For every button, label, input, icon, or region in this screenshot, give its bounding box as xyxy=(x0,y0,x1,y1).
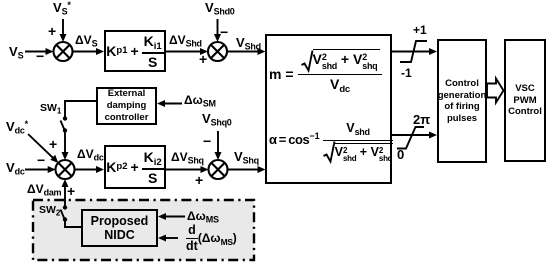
wire m output to control block xyxy=(392,51,430,53)
wire dwMS arrow into NIDC xyxy=(165,216,185,218)
label Vshd0 xyxy=(205,1,234,14)
label -1 xyxy=(401,67,412,79)
label plus S2 xyxy=(199,52,207,66)
label Vs xyxy=(9,45,23,58)
label Vs* xyxy=(53,1,71,14)
label plus S4 xyxy=(195,173,203,187)
label minus S4 xyxy=(203,134,211,148)
wire S2 to m-alpha block xyxy=(227,51,259,53)
wire S1 to PI1 xyxy=(73,51,98,53)
proposed NIDC block xyxy=(81,209,158,247)
label plus S1 xyxy=(48,24,56,38)
wire Vs* down arrow xyxy=(62,19,64,36)
label dwMS xyxy=(187,210,219,222)
wire dVdam up arrow xyxy=(64,185,66,208)
formula m equation xyxy=(269,49,382,91)
label minus S1 xyxy=(36,49,44,63)
label SW1 xyxy=(40,103,61,114)
label Vshq xyxy=(234,150,259,163)
label plus dVdam xyxy=(67,184,75,198)
switch SW1 xyxy=(63,116,67,132)
wire Vshd0 down arrow xyxy=(217,19,219,36)
formula alpha equation xyxy=(269,122,393,163)
wire Vdc input arrow xyxy=(25,169,49,171)
label dVdc xyxy=(77,148,104,160)
label minus S2 xyxy=(220,25,228,39)
wire Vdc* diagonal arrow xyxy=(28,134,54,159)
switch SW2 xyxy=(63,205,67,221)
wire S3 to PI2 xyxy=(75,169,98,171)
wire external controller to SW1 xyxy=(65,101,96,117)
label dVshq xyxy=(171,151,204,163)
label +1 xyxy=(413,24,427,36)
summing junction S3 xyxy=(56,160,75,179)
external damping controller block xyxy=(96,87,157,125)
wire SW2 to NIDC block xyxy=(65,220,81,228)
PI block K_p1 xyxy=(104,30,166,72)
label Vshd xyxy=(236,36,261,49)
label dVs xyxy=(75,34,97,46)
wire alpha output to control block xyxy=(392,134,430,136)
label 2pi xyxy=(413,113,430,126)
wire Vs input arrow xyxy=(25,51,47,53)
summing junction S4 xyxy=(209,160,228,179)
wire PI2 to S4 xyxy=(166,169,202,171)
NIDC dash-dot region box xyxy=(33,200,254,260)
wire PI1 to S2 xyxy=(166,51,201,53)
label dVshd xyxy=(169,34,202,46)
wire dwSM arrow into external controller xyxy=(164,103,182,105)
summing junction S2 xyxy=(208,42,227,61)
wire S4 to m-alpha block xyxy=(228,169,259,171)
summing junction S1 xyxy=(54,42,73,61)
limiter L2 saturation glyph xyxy=(397,127,424,149)
label ddt dwMS xyxy=(186,224,237,252)
label Vdc xyxy=(6,161,25,174)
label SW2 xyxy=(39,205,60,216)
label plus Vdc* xyxy=(49,137,57,151)
wire SW1 to S3 arrow xyxy=(64,131,66,155)
label Vshq0 xyxy=(202,112,231,125)
label Vdc* xyxy=(6,120,28,133)
label minus Vdc xyxy=(37,153,45,167)
label 0 xyxy=(397,148,404,161)
control generation block xyxy=(437,39,487,163)
limiter L1 saturation glyph xyxy=(400,41,427,62)
PI block K_p2 xyxy=(104,145,166,189)
label dwSM xyxy=(184,94,216,106)
label dVdam xyxy=(27,183,61,195)
wire Vshq0 down arrow xyxy=(217,131,219,154)
m-alpha computation block xyxy=(265,34,392,184)
VSC PWM control block xyxy=(504,39,546,162)
wire ddt arrow into NIDC xyxy=(165,237,178,239)
hollow block arrow to VSC xyxy=(487,79,504,103)
